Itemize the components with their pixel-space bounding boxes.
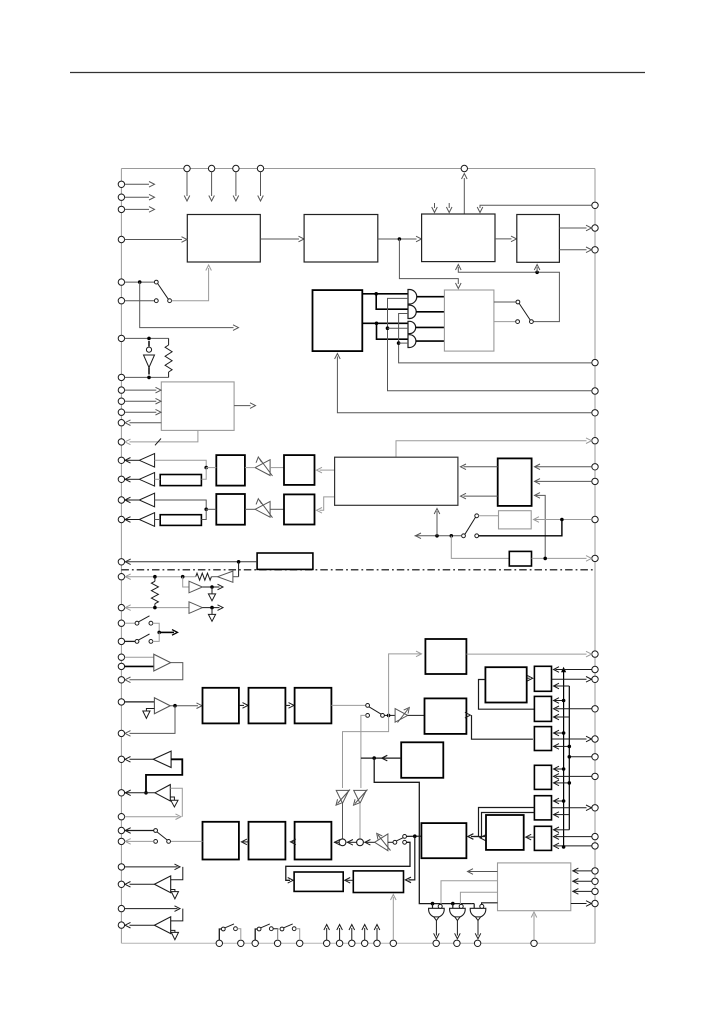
pin left L36 [118,922,124,928]
pin left L12 [118,420,124,426]
wire U30 to U31 [241,839,248,845]
node J13 [435,534,439,538]
pin left L2 [118,194,124,200]
wire VB2 to REG3 [554,744,570,750]
wire SW6 b elbow [361,715,366,788]
inverter N1 [218,571,239,582]
wire U1 to U2 [260,236,304,242]
node J2 [535,271,539,275]
wire V4 base to SW7 [388,841,393,843]
switch SW4 blade [138,616,149,622]
wire REG6 to U28 [526,834,535,840]
node J20 [153,606,157,610]
wire mode arrow [159,630,177,636]
block Z2 delay [160,515,201,526]
block U14 [498,458,532,506]
resistor R3 [151,577,158,608]
block U9 [216,455,245,486]
wire SW3 to U15 [478,515,498,517]
wire pin L22 to SW5 [125,640,136,642]
block Z1 delay [160,475,201,486]
wire U19 to U20 [285,703,294,709]
switch SW8 blade [157,832,167,840]
wire supply up-arrow S4 [362,925,368,941]
wire vertical bus VB1 [561,667,566,847]
node J4 [147,337,151,341]
wire VB2 to REG6 [554,827,570,833]
block U25 [485,667,526,702]
wire U18 to U19 [239,703,248,709]
wire pin R8 to U14 [535,464,592,470]
wire down-arrow from pin T4 [258,172,264,201]
pin left L24 [118,663,124,669]
wire J23 feedback to pin L27 [125,706,175,737]
wire pin R23 to U32 [573,879,592,885]
buffer A3 [125,493,155,507]
pin bottom B9 [362,940,368,946]
wire J7 to gate4 [377,323,409,339]
wire J18 to buffer B1 [183,577,189,587]
wire J8 to gate3 in2 [388,327,409,329]
switch SW6 contact b [366,714,370,718]
wire J12 elbow [478,520,562,536]
wire top rail [121,168,595,170]
wire V3 to U21 [408,714,425,716]
node J22 [157,631,161,635]
block U13 [335,457,458,505]
switch SW11 [278,924,300,940]
gate G2 [408,305,416,318]
pin right R10 [592,516,598,522]
block U22 [425,639,466,674]
pin left L29 [118,790,124,796]
wire Z2 to J11 [201,509,206,519]
wire U26 to U27 [345,878,354,884]
ring RING1 [339,839,346,846]
block U17 [257,553,313,569]
wire J13 up to U13 [434,509,440,536]
wire U6 out b [362,322,408,324]
wire A4 to Z2 [155,519,161,521]
node J31 [562,731,566,735]
wire J9 to gate4 in2 [399,342,408,344]
block U7 [444,290,494,351]
wire down-arrow from pin T1 [184,172,190,201]
pin right R7 [592,438,598,444]
wire RING2 to RING1 [347,840,357,846]
wire pin L26 to opamp X2 [125,701,155,703]
gate H2 [450,904,466,917]
block U2 [304,215,378,263]
node J35 [568,781,572,785]
wire J14 to U16 [451,536,509,559]
block U23 [421,823,466,858]
buffer B2 [189,602,202,614]
ref tap T3 [143,709,155,719]
node J14 [450,534,454,538]
wire bottom rail [121,942,595,944]
wire pin R1 to U3 top [477,205,592,212]
wire pin R24 to U32 [573,889,592,895]
buffer A1 [125,454,155,468]
pin top T1 [184,165,190,171]
wire pin L19 net [125,574,196,580]
pin right R11 [592,555,598,561]
varbuf V2 [255,499,272,518]
wire pin L24 to opamp X1 [125,665,154,667]
wire U13 to U12 [317,497,335,513]
node J25 [413,834,417,838]
wire pin R17 to VB2 [569,756,592,758]
pin bottom B1 [216,940,222,946]
wire J6 to gate2 [376,294,408,309]
gate G4 [408,335,416,348]
wire gate2 in2 net [399,314,592,363]
wire feedback to U3/U4 [456,265,560,322]
wire SW7 c elbow [286,842,410,883]
wire J16 down [238,562,240,577]
wire pin R22 to U32 [573,868,592,874]
wire U21 out [465,712,533,739]
pin bottom B11 [390,940,396,946]
gate H3 [470,904,486,917]
wire gate1 in2 net [388,298,592,390]
pin right R15 [592,706,598,712]
wire U29 to U30 [290,839,296,845]
wire box3 up to pin T5 [462,174,468,215]
block U5 [161,382,234,431]
pin bottom B10 [374,940,380,946]
pin left L1 [118,181,124,187]
pin right R21 [592,843,598,849]
node J1 [398,237,402,241]
pin top T5 [461,165,467,171]
wire rowA [155,460,207,467]
wire REG5 out to pin R19 [552,805,592,811]
wire U13 to U10 [317,467,335,473]
op-amp X1 [154,654,171,671]
wire N3 fb [170,788,182,817]
wire pin L8 stub [125,376,169,378]
pin left L35 [118,905,124,911]
wire AT1 to ring1 [342,803,344,839]
wire pin L33 line [125,864,180,870]
ref tap T6 [171,930,179,939]
wire VB2 to REG4 [554,780,570,786]
node J21 [210,606,214,610]
wire pin L31 to SW8 [125,828,154,834]
wire A2 to Z1 [155,478,161,480]
wire U32 to gate H3 [482,903,498,905]
node J16 [237,560,241,564]
block U4 [517,215,560,263]
wire rowC [155,500,207,509]
block U3 [422,214,495,262]
wire U6 out a [362,293,408,295]
wire U7 out a [494,301,516,303]
wire REG5 elbow to U23 b [480,813,535,841]
node J9 [397,341,401,345]
wire down-arrow from pin T3 [233,172,239,201]
pin left L30 [118,814,124,820]
wire SW7 b to U23 [406,835,421,837]
node J24 [387,714,391,718]
block U18 [203,688,239,724]
wire pin R6 to U6 bottom [335,354,592,413]
wire vertical to U14 c [535,493,546,559]
block REG5 [534,796,551,820]
wire pin R13 to REG1 [554,667,592,673]
wire pin L7 stub [125,337,169,339]
gate H1 [429,904,445,917]
pin left L16 [118,497,124,503]
pin bottom B2 [238,940,244,946]
pin right R13 [592,666,598,672]
inverter N4 [154,876,170,893]
wire J11 to U11 [206,508,216,510]
buffer A4 [125,513,155,527]
wire pin L5 to SW1 [125,281,155,283]
node J10 [204,466,208,470]
block U30 [249,822,286,860]
varbuf V1 [255,457,272,476]
switch SW5 contact b [149,640,153,644]
node J6 [374,292,378,296]
pin left L19 [118,574,124,580]
pin left L4 [118,236,124,242]
pin bottom B12 [433,940,439,946]
node J26 [372,756,376,760]
switch SW1 contact b [154,299,158,303]
wire line to gate H3 [472,904,474,909]
wire supply arrow U3 b [446,203,452,213]
block U16 [509,551,531,566]
wire pin L29 line [125,790,155,796]
switch SW5 contact a [135,640,139,644]
page header rule [70,72,645,74]
wire pin R21 to REG6 [554,843,592,849]
node J33 [568,755,572,759]
switch SW1 contact a [154,280,158,284]
pin top T4 [257,165,263,171]
wire N2 tip to pin L28 [130,758,154,760]
pin left L25 [118,677,124,683]
wire gate G4 out [416,340,445,342]
wire VB2 to REG1 [554,683,570,689]
wire U8 top out to pin R7 [396,438,592,457]
var-amp V4 [375,833,391,850]
wire RING1 to U29 [334,840,340,846]
pin bottom B4 [274,940,280,946]
switch SW6 common [381,714,385,718]
block U1 [187,215,260,263]
wire pin R15 to REG2 [554,706,592,712]
wire pin L6 to SW1 [125,300,155,302]
node J8 [386,326,390,330]
wire U11 to V2 [245,508,255,510]
block U32 [498,863,571,911]
pin bottom B7 [336,940,342,946]
ref tap T4 [170,797,178,807]
switch SW3 contact c [475,514,479,518]
switch SW10 [255,924,277,940]
node J15 [543,557,547,561]
pin left L27 [118,730,124,736]
wire U14 to U13 a [461,464,498,470]
wire VB1 to REG3 [554,730,564,736]
node J36 [562,799,566,803]
switch SW8 contact a [167,840,171,844]
pin right R3 [592,247,598,253]
pin left L33 [118,864,124,870]
wire input arrow L2 [125,194,155,200]
block U15 [499,511,532,529]
node J12 [560,518,564,522]
pin left L7 [118,335,124,341]
pin left L14 [118,457,124,463]
node J5 [147,376,151,380]
pin left L13 [118,439,124,445]
wire U20 to SW6 [331,704,366,706]
pin right R14 [592,676,598,682]
node J37 [562,845,566,849]
switch SW7 blade [396,838,403,841]
pin right R5 [592,388,598,394]
wire SW4 out [153,623,160,632]
node J38 [144,791,148,795]
wire SW6 common to amp [384,714,395,716]
bus slash [155,439,161,446]
resistor R1 [165,338,172,377]
wire J1 to U5 top [399,239,461,289]
ref tap T1 [208,587,215,601]
wire pin R20 to REG6 [554,834,592,840]
wire J2 up to U4 [534,265,540,273]
pin right R25 [592,900,598,906]
node J27 [431,902,435,906]
node J19 [210,585,214,589]
wire U32 to gate H2 [460,892,497,904]
wire J25 down to U26 [406,836,415,883]
pin left L28 [118,756,124,762]
wire input to U5 y412 [125,409,161,415]
switch SW3 contact a [475,534,479,538]
pin right R1 [592,202,598,208]
wire J3 branch arrow [140,282,239,330]
pin right R17 [592,754,598,760]
block U31 [203,822,239,860]
ref tap T2 [208,608,215,622]
wire supply up-arrow S3 [349,925,355,941]
wire U31 to SW8 [170,840,202,842]
pin left L23 [118,654,124,660]
buffer A2 [125,473,155,487]
wire U5 out to pin L12 [125,420,161,426]
ref tap T5 [171,890,179,899]
block REG6 [534,826,551,850]
node J11 [204,508,208,512]
wire pin L35 line [125,906,180,912]
pin right R12 [592,651,598,657]
wire J26 to nand line [374,758,472,904]
pin bottom B6 [324,940,330,946]
wire Z1 to J10 [201,468,206,480]
switch SW7 contact c [403,840,407,844]
wire U3 to U4 [495,236,517,242]
wire vertical bus VB2 [568,686,570,830]
inverter N2 [125,751,171,767]
block U21 [425,698,467,734]
pin left L17 [118,516,124,522]
wire SW3 common line [415,533,462,539]
inverter N5 [154,917,170,934]
wire V1 to U10 [270,467,284,469]
wire VB2 to REG2 [554,714,570,720]
wire left rail [120,169,122,944]
pin right R18 [592,773,598,779]
wire X1 feedback to pin L25 [125,663,183,683]
wire U5 output arrow [234,403,255,409]
pin left L8 [118,374,124,380]
wire N2 thick path [146,759,182,793]
wire pin L18 to U17 [125,559,258,565]
wire pin R10 to U15 [534,517,592,523]
pin left L5 [118,279,124,285]
buffer B1 [189,581,202,593]
pin right R9 [592,478,598,484]
block U19 [249,688,286,724]
pin right R4 [592,359,598,365]
node J17 [153,575,157,579]
pin right R24 [592,888,598,894]
pin right R2 [592,225,598,231]
wire SW1 to U1 bottom [172,265,212,301]
gate H1 output [434,917,440,939]
resistor R2 [196,573,218,580]
pin right R23 [592,878,598,884]
gate G1 [408,290,417,305]
wire VB1 to REG5 [554,798,564,804]
wire supply arrow U3 a [432,203,438,213]
pin left L6 [118,298,124,304]
wire L35 elbow [171,909,183,921]
pin right R19 [592,805,598,811]
wire U24 out left [361,755,401,761]
switch SW2 common [530,320,534,324]
switch SW3 blade [465,517,476,534]
wire U14 to U13 b [461,493,498,499]
wire U16 to pin R11 [532,556,592,562]
switch SW7 contact b [403,835,407,839]
wire U7 out b [494,321,516,323]
pin right R20 [592,833,598,839]
wire J28 stub [452,904,454,909]
wire L4 to U1 [125,237,187,243]
pin right R22 [592,868,598,874]
wire U22 out to pin R12 [466,651,591,657]
wire VB2 to REG5 [554,812,570,818]
wire pin L32 to SW8 [125,839,154,845]
wire V4 to RING2 [364,840,374,846]
pin left L32 [118,838,124,844]
switch SW6 contact a [366,704,370,708]
block U20 [295,688,332,724]
node J30 [562,699,566,703]
wire U4 out R3 [559,247,591,253]
wire B2 out [202,605,223,611]
var-amp V3 [395,708,409,723]
gate H3 output [475,917,481,939]
